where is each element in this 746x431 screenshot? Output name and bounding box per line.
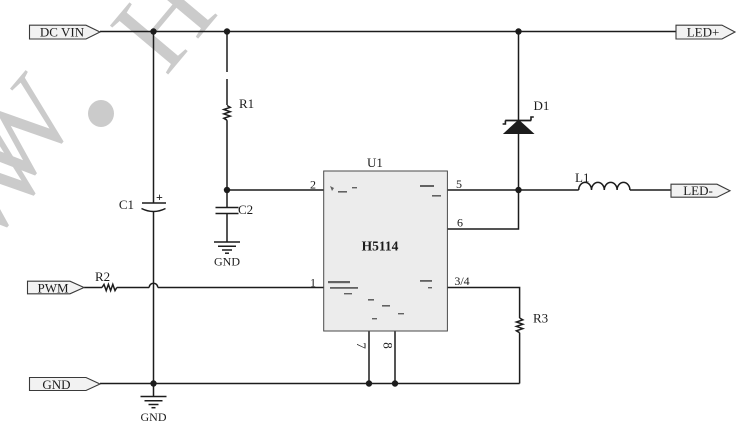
diode D1 bbox=[505, 120, 531, 122]
wire pin8 bbox=[394, 331, 396, 384]
svg-text:H: H bbox=[88, 0, 240, 94]
port DC VIN bbox=[30, 25, 101, 40]
wire hop over C1 branch bbox=[149, 283, 158, 287]
svg-text:8: 8 bbox=[381, 342, 396, 349]
node GND rail bbox=[150, 380, 156, 386]
svg-text:GND: GND bbox=[214, 255, 240, 269]
wire top rail DC VIN to LED+ bbox=[100, 31, 677, 33]
scan artifact marks inside U1 bbox=[328, 185, 441, 319]
IC U1 body bbox=[324, 171, 448, 331]
resistor R1 bbox=[224, 106, 230, 121]
svg-text:PWM: PWM bbox=[37, 280, 69, 295]
svg-text:C1: C1 bbox=[119, 197, 134, 212]
wire L1 to LED- bbox=[630, 189, 671, 191]
wire D1 branch bbox=[518, 32, 520, 121]
wire R2 to hop bbox=[117, 287, 149, 289]
svg-text:R2: R2 bbox=[95, 269, 110, 284]
capacitor C2 bbox=[226, 190, 228, 208]
wire hop to pin1 bbox=[158, 287, 324, 289]
port LED+ bbox=[676, 25, 735, 40]
resistor R3 bbox=[516, 318, 522, 333]
svg-text:R3: R3 bbox=[533, 311, 548, 326]
port LED- bbox=[671, 183, 730, 198]
node pin8 rail bbox=[392, 380, 398, 386]
svg-text:U1: U1 bbox=[367, 155, 383, 170]
svg-text:LED-: LED- bbox=[683, 183, 713, 198]
svg-text:GND: GND bbox=[42, 377, 70, 392]
wire bottom rail bbox=[100, 383, 520, 385]
svg-text:7: 7 bbox=[354, 342, 369, 349]
port PWM bbox=[28, 280, 85, 295]
svg-text:GND: GND bbox=[141, 410, 167, 424]
wire pin7 bbox=[368, 331, 370, 384]
node D1/top bbox=[515, 28, 521, 34]
node D1/L1/pin6 bbox=[515, 187, 521, 193]
capacitor C1 bbox=[142, 202, 166, 204]
svg-text:L1: L1 bbox=[575, 170, 589, 185]
node R1/C2/pin2 bbox=[224, 187, 230, 193]
svg-text:R1: R1 bbox=[239, 96, 254, 111]
wire C1 branch lower bbox=[153, 211, 155, 384]
wire R1 to node bbox=[226, 120, 228, 190]
ground bottom bbox=[153, 384, 155, 397]
svg-text:5: 5 bbox=[456, 177, 462, 191]
ground below C2 bbox=[214, 241, 240, 243]
svg-text:+: + bbox=[156, 190, 163, 204]
svg-text:D1: D1 bbox=[534, 98, 550, 113]
wire pin2 bbox=[227, 189, 324, 191]
inductor L1 bbox=[579, 182, 630, 190]
svg-text:1: 1 bbox=[310, 276, 316, 290]
resistor R2 bbox=[102, 284, 117, 290]
svg-text:H5114: H5114 bbox=[362, 239, 399, 254]
svg-text:2: 2 bbox=[310, 178, 316, 192]
svg-text:LED+: LED+ bbox=[687, 25, 720, 40]
svg-text:6: 6 bbox=[457, 216, 463, 230]
svg-text:W: W bbox=[0, 53, 101, 214]
wire pin5 to L1 bbox=[447, 189, 578, 191]
junction node dots bbox=[150, 28, 521, 386]
port GND bbox=[30, 377, 101, 392]
svg-text:DC VIN: DC VIN bbox=[40, 25, 85, 40]
wire PWM to R2 bbox=[84, 287, 102, 289]
svg-text:C2: C2 bbox=[238, 202, 253, 217]
node C1/top bbox=[150, 28, 156, 34]
wire R3 to bottom rail bbox=[519, 333, 521, 384]
node R1/top bbox=[224, 28, 230, 34]
wire C1 branch upper bbox=[153, 32, 155, 204]
wire R1 branch upper bbox=[226, 32, 228, 73]
wire pin3/4 bbox=[447, 288, 519, 319]
node pin7 rail bbox=[366, 380, 372, 386]
wire pin6 bbox=[447, 190, 518, 229]
svg-text:3/4: 3/4 bbox=[454, 274, 469, 288]
watermark bbox=[0, 0, 240, 266]
